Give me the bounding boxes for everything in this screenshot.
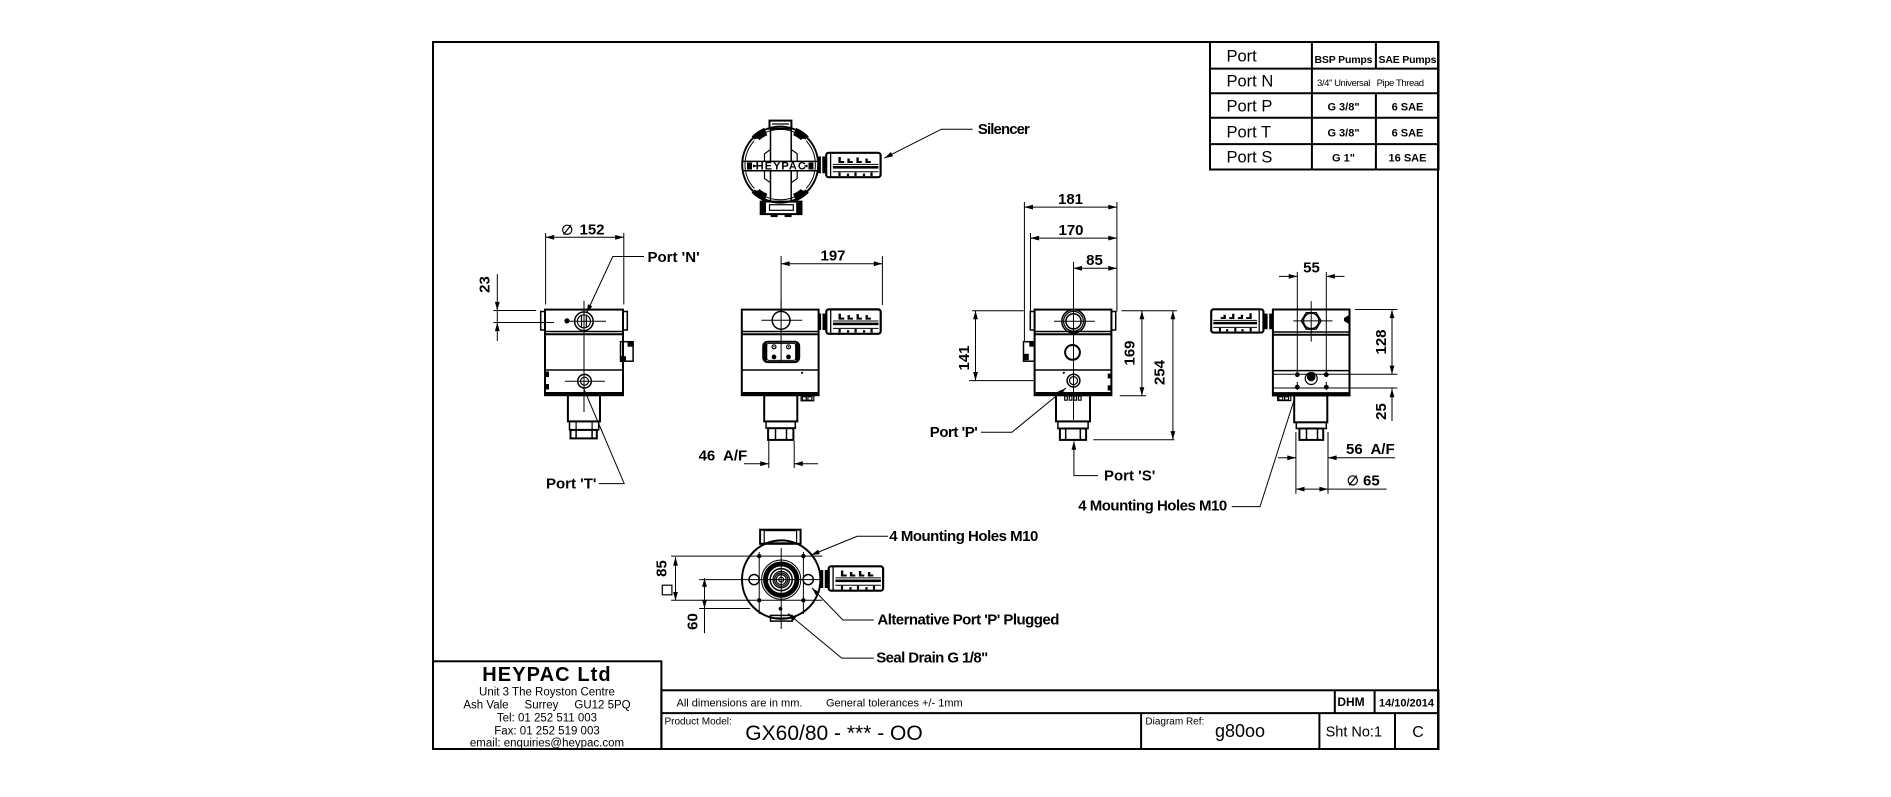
dim 254 [1093,311,1175,440]
svg-text:170: 170 [1058,222,1083,239]
view2 mounting pad [763,342,799,362]
table header row: Port / BSP Pumps / SAE Pumps [1227,48,1437,67]
view2 hex plug side circle [761,301,802,361]
title block date box [1375,690,1435,713]
4 Mounting Holes M10 label (view4) [1078,398,1295,515]
view1 hex nut [571,430,597,439]
svg-text:25: 25 [1373,403,1390,420]
view2 air inlet block [764,395,797,421]
bottom view right port circle [803,575,813,585]
view4 top hex plug [1293,301,1332,341]
view1 right side regulator boss [621,342,634,362]
svg-text:197: 197 [820,247,845,264]
svg-text:46 A/F: 46 A/F [699,447,748,464]
svg-text:G 3/8": G 3/8" [1327,102,1359,114]
svg-text:C: C [1412,724,1424,741]
svg-text:Sht No:1: Sht No:1 [1326,725,1382,741]
title block company box [433,661,661,749]
svg-text:Unit 3 The Royston Centre: Unit 3 The Royston Centre [479,687,615,699]
view3 right edge clamp marks [1108,374,1112,391]
bottom view mounting holes [757,554,806,603]
bottom view left port circle [749,575,759,585]
Port 'P' label and leader [930,386,1068,441]
svg-text:General tolerances +/- 1mm: General tolerances +/- 1mm [826,698,963,710]
svg-text:60: 60 [685,613,702,630]
bottom view center inlet rings [762,560,801,599]
svg-text:Port 'T': Port 'T' [546,475,596,492]
top view outer circle [742,127,818,203]
port table grid [1210,42,1439,170]
Port 'S' label and leader [1072,441,1156,484]
svg-text:Alternative Port 'P' Plugged: Alternative Port 'P' Plugged [877,612,1059,629]
top view bolt lug top-left [734,114,766,165]
table row Port P [1227,98,1424,116]
view4 hex nut chamfer [1296,422,1326,428]
dim 181 [1024,191,1117,341]
top view silencer [826,153,880,177]
view1 vertical centerline [583,301,585,412]
title block product model box [665,717,923,746]
svg-text:14/10/2014: 14/10/2014 [1379,698,1435,710]
dim 23 [477,274,555,341]
dim square 85 [654,557,678,601]
view1 small plug left of port N [564,318,569,323]
svg-text:4 Mounting Holes M10: 4 Mounting Holes M10 [1078,498,1227,515]
view3 port N rear boss [1054,310,1095,333]
view3 air inlet block [1056,395,1090,421]
svg-text:Port P: Port P [1227,98,1273,116]
table row Port T [1227,124,1424,142]
svg-text:GX60/80 - *** - OO: GX60/80 - *** - OO [745,722,922,745]
top view silencer adapter [818,156,825,173]
svg-text:85: 85 [654,560,671,577]
svg-text:85: 85 [1086,252,1103,269]
svg-text:Fax: 01 252 519 003: Fax: 01 252 519 003 [494,726,600,738]
bottom view bottom tab [771,615,793,621]
view3 breather teeth [1065,396,1081,400]
view3 right mounting tab [1111,312,1115,331]
svg-text:254: 254 [1152,359,1169,385]
dim 55 [1279,260,1345,279]
bottom view silencer adapter [820,570,828,588]
top view HEYPAC logo text [747,160,814,172]
dim 169 [1120,311,1177,396]
view3 hex nut [1060,429,1086,440]
title block notes strip [661,690,1438,749]
Port 'T' label and leader [546,388,624,493]
view1 hex nut chamfer [570,421,599,430]
svg-text:128: 128 [1373,329,1390,354]
view1 left edge clamp marks [546,372,550,390]
svg-text:SAE Pumps: SAE Pumps [1379,54,1437,66]
svg-text:Tel: 01 252 511 003: Tel: 01 252 511 003 [497,713,597,725]
view3 mid circle port [1065,345,1080,360]
view1 body outline [545,310,623,396]
svg-text:HEYPAC: HEYPAC [756,160,806,172]
svg-text:Silencer: Silencer [978,121,1030,138]
svg-text:Port 'N': Port 'N' [648,249,700,266]
svg-text:181: 181 [1058,191,1083,208]
svg-text:56 A/F: 56 A/F [1346,441,1395,458]
view3 body outline [1035,310,1112,396]
dim 197 [781,247,882,308]
top view top tab [770,121,792,129]
dim Ø152 [546,222,624,305]
svg-text:G 3/8": G 3/8" [1327,128,1359,140]
table row Port S [1227,149,1427,167]
view4 body outline [1273,310,1350,396]
view3 port P circle [1067,374,1080,387]
title block sheet number box [1319,713,1382,749]
svg-text:Ash Vale Surrey GU12 5: Ash Vale Surrey GU12 5PQ [463,700,630,712]
svg-text:BSP Pumps: BSP Pumps [1315,54,1373,66]
view1 port N boss [565,312,606,331]
top view bolt lug bottom-left [754,185,766,197]
Seal Drain G 1/8" label and leader [786,612,988,667]
view4 silencer (mirrored) [1211,309,1263,332]
view4 air inlet block [1294,395,1327,422]
svg-text:3/4" Universal Pipe Thread: 3/4" Universal Pipe Thread [1317,78,1424,89]
svg-text:Diagram Ref:: Diagram Ref: [1145,717,1204,728]
view4 flange lines [1273,374,1398,388]
dim 56 A/F [1278,432,1395,494]
bottom view silencer [829,566,883,590]
svg-text:4 Mounting Holes M10: 4 Mounting Holes M10 [889,528,1038,545]
view1 right mounting tab [623,312,627,331]
top view bottom tab [761,202,802,218]
bottom view centerlines [671,548,824,629]
svg-text:Port 'P': Port 'P' [930,424,978,441]
svg-text:Seal Drain G 1/8": Seal Drain G 1/8" [876,650,988,667]
svg-text:email: enquiries@heypac.com: email: enquiries@heypac.com [470,738,624,750]
bottom view top tab [760,530,801,544]
svg-text:141: 141 [956,345,973,370]
view2 body outline [742,310,819,396]
view4 mounting holes [1295,272,1329,390]
svg-text:HEYPAC Ltd: HEYPAC Ltd [482,664,612,686]
table row Port N [1227,73,1425,91]
view1 port T circle [565,374,605,388]
view3 hex nut chamfer [1058,421,1088,428]
svg-text:169: 169 [1122,340,1139,365]
svg-text:Port 'S': Port 'S' [1104,467,1155,484]
svg-text:All dimensions are in mm.: All dimensions are in mm. [677,698,803,710]
svg-text:Port: Port [1227,48,1258,66]
dim 170 [1031,222,1117,312]
view2 silencer adapter [819,314,826,331]
view1 left mounting tab [541,312,545,331]
svg-text:G 1": G 1" [1332,153,1355,165]
svg-text:Port T: Port T [1227,124,1272,142]
dim 60 [685,578,707,633]
top view bolt lug top-right [795,132,807,144]
view2 hex nut [768,428,793,440]
dim 141 [956,311,1033,381]
title block DHM box [1335,690,1365,713]
4 Mounting Holes M10 label (bottom view) [810,528,1038,557]
svg-text:g80oo: g80oo [1215,721,1265,741]
dim Ø65 [1296,472,1387,491]
svg-text:6 SAE: 6 SAE [1392,128,1424,140]
svg-text:23: 23 [477,276,494,293]
top view bolt lug bottom-right [795,185,807,197]
bottom view outer circle [742,540,820,618]
svg-text:65: 65 [1363,472,1380,489]
svg-text:6 SAE: 6 SAE [1392,102,1424,114]
view3 vertical centerline [1073,262,1075,420]
svg-text:Port S: Port S [1227,149,1273,167]
svg-text:Product Model:: Product Model: [665,717,732,728]
bottom view seal drain hole [779,607,783,611]
view3 left regulator boss [1024,342,1035,362]
top view casting cross ribs [743,128,818,202]
view3 left mounting tab [1030,312,1034,331]
title block revision box [1395,713,1424,749]
view4 right edge tick mark [1344,315,1349,324]
drawing frame border [433,42,1438,749]
dim 46 A/F [699,441,818,468]
svg-text:55: 55 [1303,260,1320,277]
svg-text:DHM: DHM [1337,695,1364,709]
view4 drain step [1278,396,1291,401]
view4 alternative port P plug [1305,372,1317,384]
dim 128 [1355,310,1397,375]
dim 25 [1373,363,1395,421]
svg-text:16 SAE: 16 SAE [1389,153,1427,165]
view4 silencer adapter [1264,314,1273,330]
view1 air inlet block [568,395,600,421]
view4 hex nut [1299,429,1323,440]
Port 'N' label and leader [584,249,699,314]
view2 hex nut chamfer [766,421,795,428]
Alternative Port 'P' Plugged label and leader [810,586,1059,628]
svg-text:152: 152 [579,222,604,239]
svg-text:Port N: Port N [1227,73,1274,91]
view2 drain step [801,396,814,401]
title block diagram ref box [1141,713,1265,749]
view2 silencer [826,309,880,333]
dim 85 top [1073,252,1117,271]
Silencer label and leader [883,121,1030,160]
